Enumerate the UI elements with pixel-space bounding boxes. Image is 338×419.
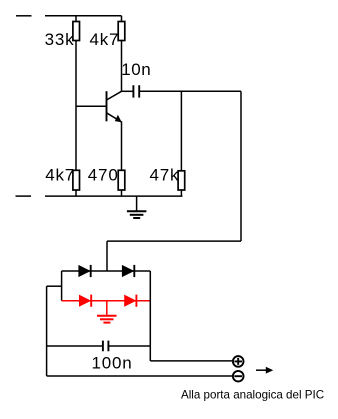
svg-text:4k7: 4k7 <box>90 30 120 49</box>
wire top supply rail <box>45 15 122 17</box>
diode D3 red <box>79 295 91 307</box>
wire red diode row <box>62 300 151 302</box>
diode D4 red <box>124 295 136 307</box>
diode D2 <box>122 265 134 277</box>
resistor 470 <box>88 166 125 190</box>
arrow to PIC <box>256 367 273 374</box>
svg-text:470: 470 <box>88 166 119 185</box>
wire to minus terminal <box>47 375 233 377</box>
wire bottom rail break dash <box>16 195 32 197</box>
wire top rail break dash <box>16 15 32 17</box>
wire collector to capacitor <box>122 90 134 92</box>
wire outer left vertical <box>46 286 48 376</box>
wire right vertical down <box>240 91 242 241</box>
resistor 47k <box>150 166 185 190</box>
wire 47k branch <box>180 91 182 196</box>
terminal minus <box>233 371 244 382</box>
resistor 4k7 bottom <box>45 166 79 190</box>
capacitor 10n <box>121 60 151 97</box>
ground <box>127 196 146 218</box>
wire column A (33k / base divider / bottom 4k7) <box>75 16 77 196</box>
transistor Q1 <box>107 91 122 122</box>
resistor 33k <box>45 22 80 50</box>
wire capacitor 10n output to right <box>139 90 241 92</box>
diode D1 <box>78 265 90 277</box>
wire right vertical of diode box <box>149 271 151 361</box>
svg-text:Alla porta analogica del PIC: Alla porta analogica del PIC <box>181 389 324 402</box>
ground red <box>97 301 117 323</box>
wire 100n row left <box>47 345 103 347</box>
wire to plus terminal <box>150 360 233 362</box>
wire column B collector branch <box>121 16 123 92</box>
resistor 4k7 top <box>90 22 125 50</box>
svg-text:47k: 47k <box>150 166 180 185</box>
svg-text:4k7: 4k7 <box>45 166 75 185</box>
wire 100n row right <box>108 345 150 347</box>
wire emitter branch down <box>121 121 123 196</box>
wire top diode row <box>62 270 151 272</box>
wire left vertical between diode rows <box>61 271 63 301</box>
svg-text:100n: 100n <box>92 353 133 372</box>
svg-text:33k: 33k <box>45 30 75 49</box>
wire stem into diode row <box>106 241 108 271</box>
terminal plus <box>233 356 244 367</box>
wire stub to outer left branch <box>47 285 62 287</box>
svg-text:10n: 10n <box>121 60 151 79</box>
capacitor 100n <box>92 341 133 373</box>
wire bottom ground rail <box>45 195 183 197</box>
wire base connection <box>76 105 107 107</box>
wire horizontal toward diode limiter <box>107 240 241 242</box>
